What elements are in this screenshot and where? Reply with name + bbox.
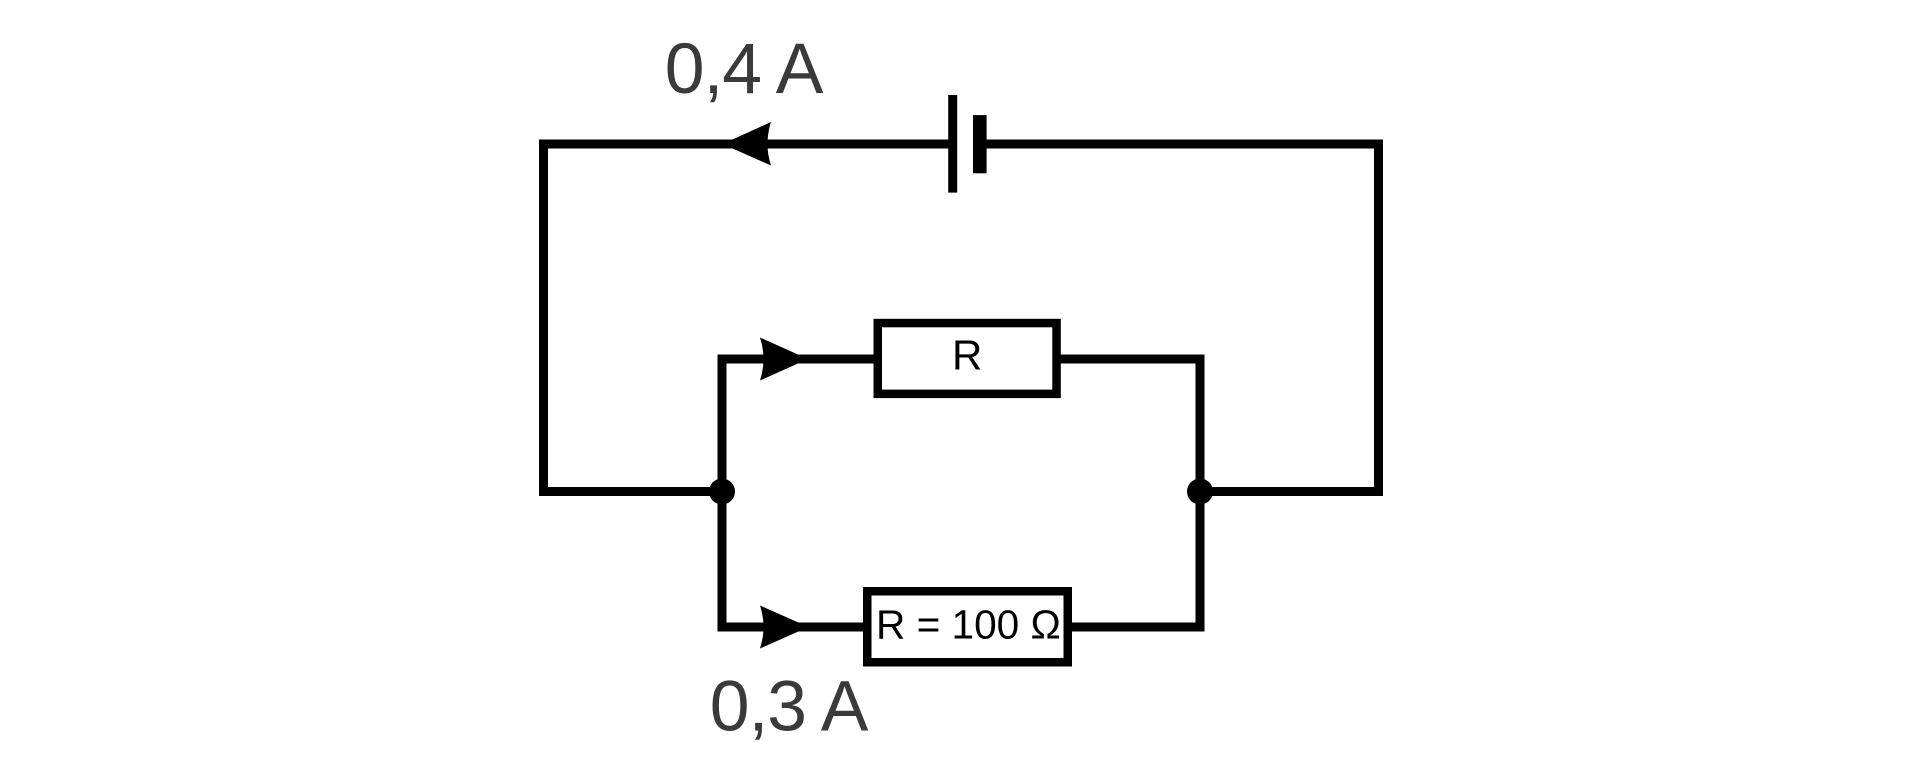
svg-text:0,3 A: 0,3 A (710, 667, 869, 747)
svg-text:R: R (952, 332, 982, 379)
svg-text:R = 100 Ω: R = 100 Ω (876, 602, 1061, 648)
svg-text:0,4 A: 0,4 A (665, 29, 824, 109)
